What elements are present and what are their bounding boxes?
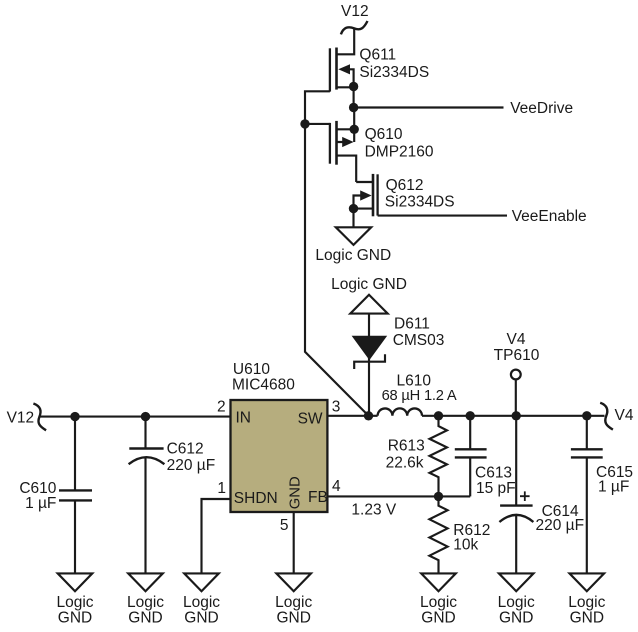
svg-text:1 µF: 1 µF [598, 478, 629, 495]
transistor Q612 [354, 174, 378, 216]
node input rail C612 [141, 412, 150, 421]
capacitor C610 [59, 417, 92, 574]
wire SW pin to node [327, 415, 368, 417]
svg-text:GND: GND [184, 610, 218, 627]
svg-text:GND: GND [570, 610, 604, 627]
node rail TP/C614 [512, 411, 521, 420]
power V12 left off-page connector [33, 404, 46, 431]
node rail C613 [466, 411, 475, 420]
IC U610 MIC4680 body [231, 400, 328, 512]
svg-text:Logic: Logic [127, 594, 164, 611]
wire GND to D611 anode [368, 314, 370, 337]
wire Q612 source to ground [352, 209, 354, 228]
svg-text:Q612: Q612 [386, 177, 424, 194]
node gate bus junction [300, 119, 309, 128]
svg-text:220 µF: 220 µF [536, 517, 585, 534]
power V12 top off-page connector [341, 21, 368, 34]
svg-text:GND: GND [288, 476, 304, 509]
node FB junction [434, 492, 443, 501]
ground Logic GND under R612 [420, 573, 457, 626]
node Q611 source junction [349, 82, 358, 91]
svg-text:Logic GND: Logic GND [331, 276, 407, 293]
svg-text:MIC4680: MIC4680 [232, 376, 295, 393]
svg-text:1.23 V: 1.23 V [351, 501, 396, 518]
capacitor C612 polarized [129, 417, 165, 574]
svg-text:1: 1 [217, 480, 226, 497]
node Q612 source junction [349, 204, 358, 213]
svg-text:L610: L610 [397, 372, 432, 389]
wire GND pin 5 to ground [293, 512, 295, 573]
svg-text:Q611: Q611 [359, 47, 396, 64]
svg-text:GND: GND [421, 610, 455, 627]
svg-text:TP610: TP610 [494, 347, 540, 364]
node VeeDrive junction [349, 103, 358, 112]
ground Logic GND (below Q612) [315, 227, 391, 264]
svg-text:FB: FB [308, 489, 328, 506]
svg-text:Logic: Logic [183, 594, 220, 611]
wire output rail [422, 415, 605, 417]
node Q610 drain junction [350, 125, 359, 134]
svg-text:Logic GND: Logic GND [315, 247, 391, 264]
wire SHDN pin to ground [202, 499, 231, 573]
svg-text:SW: SW [298, 410, 323, 427]
svg-text:10k: 10k [453, 537, 478, 554]
svg-text:VeeDrive: VeeDrive [510, 100, 573, 117]
capacitor C613 [455, 416, 487, 497]
svg-text:R613: R613 [388, 437, 425, 454]
ground Logic GND (above D611, pointing up) [331, 276, 407, 313]
svg-text:Logic: Logic [56, 594, 93, 611]
wire D611 cathode to SW node [368, 358, 370, 416]
ground Logic GND under C612 [127, 573, 164, 626]
ground Logic GND under C610 [56, 573, 93, 626]
svg-text:220 µF: 220 µF [167, 457, 216, 474]
capacitor C615 [571, 416, 603, 574]
transistor Q611 [330, 48, 354, 92]
svg-text:68 µH 1.2 A: 68 µH 1.2 A [382, 388, 457, 404]
svg-text:Q610: Q610 [365, 126, 403, 143]
capacitor C614 polarized [499, 416, 533, 574]
svg-text:V12: V12 [341, 3, 369, 20]
test point TP610 [511, 370, 521, 416]
wire Q611 source to VeeDrive node [353, 87, 355, 108]
svg-text:CMS03: CMS03 [393, 332, 445, 349]
transistor Q610 [330, 108, 356, 183]
node SW junction [364, 411, 373, 420]
inductor L610 [369, 408, 423, 415]
resistor R613 [430, 416, 448, 496]
svg-text:1 µF: 1 µF [25, 495, 56, 512]
svg-text:Logic: Logic [568, 594, 605, 611]
svg-text:VeeEnable: VeeEnable [512, 208, 587, 225]
svg-text:4: 4 [332, 478, 341, 495]
svg-text:C612: C612 [167, 441, 204, 458]
svg-text:GND: GND [499, 610, 533, 627]
svg-text:D611: D611 [394, 316, 430, 333]
wire gate bus (Q611 gate down to SW node diagonal) [305, 91, 369, 416]
svg-text:GND: GND [276, 610, 310, 627]
wire FB pin to divider [327, 495, 470, 497]
ground Logic GND under C614 [498, 573, 535, 626]
svg-text:Logic: Logic [420, 594, 457, 611]
svg-text:DMP2160: DMP2160 [365, 143, 434, 160]
svg-text:Logic: Logic [275, 594, 312, 611]
ground Logic GND under pin 5 [275, 573, 312, 626]
svg-text:2: 2 [217, 398, 226, 415]
wire VeeDrive [354, 106, 504, 108]
node input rail C610 [70, 412, 79, 421]
svg-text:Logic: Logic [498, 594, 535, 611]
svg-text:V12: V12 [7, 410, 35, 427]
node rail R613 [434, 411, 443, 420]
wire input rail V12 to IN pin [40, 416, 230, 418]
ground Logic GND under C615 [568, 573, 605, 626]
svg-text:3: 3 [332, 398, 341, 415]
svg-text:22.6k: 22.6k [386, 454, 424, 471]
svg-text:V4: V4 [615, 407, 634, 424]
svg-text:SHDN: SHDN [234, 490, 278, 507]
resistor R612 [429, 496, 447, 573]
svg-text:GND: GND [58, 610, 92, 627]
svg-text:5: 5 [280, 517, 289, 534]
wire Q610 gate [305, 123, 330, 125]
svg-text:V4: V4 [507, 331, 526, 348]
wire V12 to Q611 drain [337, 29, 355, 54]
svg-text:Si2334DS: Si2334DS [385, 193, 455, 210]
node rail C615 [582, 411, 591, 420]
ground Logic GND under SHDN [183, 573, 220, 626]
svg-text:15 pF: 15 pF [476, 480, 516, 497]
diode D611 schottky [353, 336, 387, 369]
wire VeeEnable [378, 215, 507, 217]
svg-text:Si2334DS: Si2334DS [359, 64, 429, 81]
svg-text:IN: IN [236, 409, 252, 426]
svg-text:GND: GND [128, 610, 162, 627]
power V4 right off-page connector [600, 403, 613, 430]
